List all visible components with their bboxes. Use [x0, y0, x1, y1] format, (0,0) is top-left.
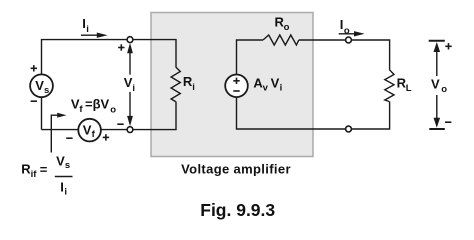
svg-text:s: s	[44, 85, 49, 96]
svg-text:s: s	[65, 160, 70, 171]
svg-text:I: I	[340, 17, 344, 32]
svg-text:i: i	[132, 83, 135, 94]
svg-text:o: o	[344, 25, 350, 36]
svg-text:V: V	[35, 78, 44, 93]
svg-text:i: i	[86, 24, 89, 35]
svg-text:i: i	[280, 83, 283, 94]
svg-text:V: V	[56, 153, 65, 168]
svg-text:o: o	[441, 84, 447, 95]
svg-text:=: =	[40, 162, 48, 177]
svg-text:Voltage amplifier: Voltage amplifier	[181, 162, 291, 177]
svg-text:L: L	[406, 83, 412, 94]
svg-text:o: o	[110, 104, 116, 115]
svg-text:Fig. 9.9.3: Fig. 9.9.3	[200, 200, 275, 220]
svg-text:v: v	[263, 83, 269, 94]
svg-text:i: i	[64, 187, 67, 198]
svg-text:V: V	[83, 122, 92, 137]
svg-text:I: I	[60, 180, 64, 195]
svg-text:i: i	[192, 82, 195, 93]
svg-text:o: o	[284, 22, 290, 33]
svg-text:V: V	[271, 76, 280, 91]
svg-text:V: V	[431, 76, 440, 91]
svg-text:=βV: =βV	[85, 96, 110, 111]
svg-text:if: if	[31, 169, 38, 180]
